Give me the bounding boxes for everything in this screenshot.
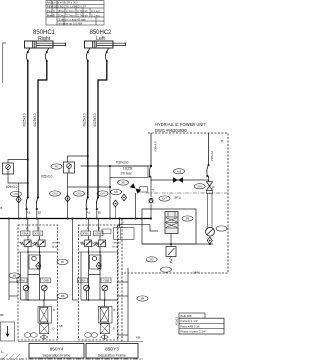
svg-text:w under ac 0.5 NM: w under ac 0.5 NM: [59, 22, 83, 26]
svg-text:A2: A2: [27, 211, 31, 215]
svg-text:AV6: AV6: [198, 185, 203, 188]
svg-text:3.1mm/s: 3.1mm/s: [77, 9, 88, 13]
svg-text:A1: A1: [87, 211, 91, 215]
svg-text:850Y3: 850Y3: [105, 347, 119, 353]
svg-text:#025x3.0: #025x3.0: [93, 113, 97, 126]
svg-text:P: P: [221, 140, 224, 144]
svg-text:#025x3.0: #025x3.0: [83, 113, 87, 126]
svg-text:Parts #AB 3.3h: Parts #AB 3.3h: [181, 324, 200, 328]
svg-text:P: P: [212, 186, 215, 190]
svg-text:#30x3.0: #30x3.0: [116, 161, 129, 165]
svg-text:#20x2.5: #20x2.5: [176, 316, 179, 325]
svg-text:#38x4.0: #38x4.0: [210, 150, 214, 161]
svg-text:1e: 1e: [1, 351, 4, 354]
svg-text:0.1 acc: 0.1 acc: [91, 13, 101, 17]
svg-text:#38x4.0: #38x4.0: [153, 141, 157, 152]
svg-text:HYDRAULIC POWER UNIT: HYDRAULIC POWER UNIT: [155, 122, 206, 127]
svg-text:M5: M5: [121, 182, 125, 185]
svg-text:B: B: [1, 206, 3, 210]
svg-text:to air: to air: [52, 245, 58, 249]
svg-text:#025x3.0: #025x3.0: [23, 113, 27, 126]
svg-text:#25x3.0: #25x3.0: [6, 185, 18, 189]
svg-text:M7: M7: [61, 261, 65, 264]
svg-text:#25x3.0: #25x3.0: [41, 175, 53, 179]
svg-text:to air: to air: [113, 245, 119, 249]
svg-text:P: P: [122, 221, 124, 225]
svg-text:Parts ltr 1 1/2": Parts ltr 1 1/2": [181, 319, 199, 323]
svg-text:T: T: [152, 189, 154, 193]
svg-text:3.1mm: 3.1mm: [66, 9, 75, 13]
svg-text:(8P1): (8P1): [174, 196, 181, 200]
svg-text:#025x3.0: #025x3.0: [33, 113, 37, 126]
svg-text:A: A: [53, 9, 55, 13]
svg-text:M9: M9: [150, 259, 154, 262]
svg-text:20 bar: 20 bar: [121, 171, 133, 176]
svg-text:PI2: PI2: [55, 166, 59, 169]
svg-text:AV5: AV5: [177, 170, 182, 173]
svg-text:3Dec: 3Dec: [58, 9, 65, 13]
svg-text:NIB: NIB: [136, 336, 141, 340]
svg-text:CV3: CV3: [77, 193, 82, 196]
svg-text:Phase in parts 1 1/4": Phase in parts 1 1/4": [181, 330, 207, 334]
svg-text:CV7: CV7: [162, 198, 167, 201]
svg-text:850Y4: 850Y4: [50, 347, 64, 353]
svg-text:B1: B1: [98, 211, 102, 215]
svg-text:M8: M8: [186, 218, 190, 221]
svg-text:18P1: 18P1: [193, 271, 200, 275]
svg-text:M6: M6: [114, 191, 118, 194]
svg-text:vented: vented: [113, 241, 122, 245]
svg-text:CV4: CV4: [100, 193, 105, 196]
svg-text:M3: M3: [13, 275, 17, 278]
svg-text:Separation Frame: Separation Frame: [98, 354, 126, 358]
svg-text:NB: NB: [59, 324, 63, 328]
svg-text:Bulk #08: Bulk #08: [181, 314, 192, 318]
svg-text:B: B: [53, 13, 55, 17]
svg-text:CV1: CV1: [14, 193, 19, 196]
svg-text:vented: vented: [52, 241, 61, 245]
svg-text:Separation Frame: Separation Frame: [42, 354, 70, 358]
svg-text:M8: M8: [61, 295, 65, 298]
svg-text:CV2: CV2: [53, 193, 58, 196]
svg-text:MB: MB: [0, 314, 4, 317]
svg-text:0.1 acc: 0.1 acc: [91, 9, 101, 13]
svg-text:M4: M4: [141, 298, 145, 301]
svg-text:DWG #95303030: DWG #95303030: [155, 128, 187, 133]
svg-text:Rev: Rev: [47, 9, 53, 13]
svg-text:B2: B2: [38, 211, 42, 215]
